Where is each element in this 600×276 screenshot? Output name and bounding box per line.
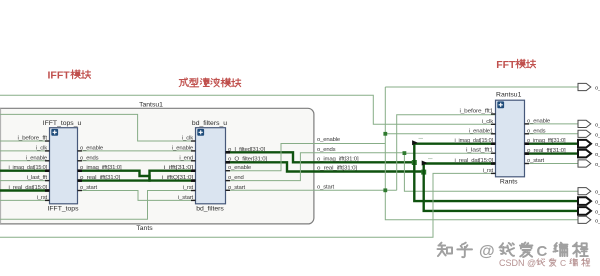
svg-text:o_start: o_start bbox=[317, 185, 334, 191]
svg-text:bd_filters: bd_filters bbox=[196, 206, 224, 213]
svg-text:i_before_fft1: i_before_fft1 bbox=[460, 109, 494, 115]
svg-text:o_imag_fft[31:0]: o_imag_fft[31:0] bbox=[527, 138, 566, 144]
svg-text:o_imag_ifft[31:0]: o_imag_ifft[31:0] bbox=[317, 157, 359, 163]
bus to Rantsu i_real_dat bbox=[424, 162, 496, 164]
net ext rst below box to Rantsu i_rst bbox=[0, 173, 496, 237]
junction dot1 bbox=[383, 132, 387, 136]
svg-text:Rantsu1: Rantsu1 bbox=[496, 92, 522, 99]
bus riser imag x=414.3 bbox=[414, 144, 580, 201]
bus o_imag_ifft outside bbox=[314, 161, 414, 163]
bus bd o_Q_filter step bbox=[226, 162, 315, 171]
svg-text:i_real_dat[15:0]: i_real_dat[15:0] bbox=[455, 158, 494, 164]
svg-text:o_enable: o_enable bbox=[317, 137, 341, 143]
svg-text:o_: o_ bbox=[595, 162, 600, 168]
hierarchical container Tants (instance Tantsu1) bbox=[0, 108, 314, 224]
svg-text:o_ends: o_ends bbox=[80, 155, 99, 161]
bus Rantsu o_real_fft to pentagon bbox=[525, 152, 581, 154]
svg-text:o_real_ifft[31:0]: o_real_ifft[31:0] bbox=[317, 166, 358, 172]
bus IFFT i_real_dat[15:0] bbox=[0, 189, 50, 191]
IFFT_tops_u pin stubs left bbox=[45, 141, 50, 200]
net Rantsu o_start to pentagon bbox=[525, 163, 581, 165]
svg-text:IFFT_tops: IFFT_tops bbox=[48, 206, 80, 213]
block IFFT_tops_u bbox=[43, 120, 82, 213]
svg-text:i_enable1: i_enable1 bbox=[469, 128, 493, 134]
svg-text:o_real_fft[31:0]: o_real_fft[31:0] bbox=[527, 148, 566, 154]
svg-text:i_imag_dat[15:0]: i_imag_dat[15:0] bbox=[9, 165, 48, 171]
bus IFFT i_imag_dat[15:0] bbox=[0, 169, 50, 171]
svg-text:i_clk: i_clk bbox=[482, 119, 493, 125]
wire IFFT i_before_fft bbox=[0, 140, 50, 142]
svg-text:o_start: o_start bbox=[527, 158, 544, 164]
block Rantsu1 bbox=[496, 92, 525, 186]
net i_enable1 from dot bbox=[385, 133, 495, 135]
svg-text:o_: o_ bbox=[595, 152, 600, 158]
bus Rantsu o_imag_fft to pentagon bbox=[525, 142, 581, 144]
svg-text:o_start: o_start bbox=[80, 185, 97, 191]
net o_enable IFFT to bd i_enable bbox=[78, 150, 196, 152]
svg-text:o_end: o_end bbox=[228, 175, 244, 181]
svg-text:FFT: FFT bbox=[496, 59, 516, 71]
svg-text:i_ifftQ[31:0]: i_ifftQ[31:0] bbox=[162, 175, 194, 181]
block bd_filters_u bbox=[192, 120, 227, 213]
junction dot3 bbox=[403, 151, 407, 155]
svg-text:i_rst: i_rst bbox=[37, 195, 48, 201]
svg-text:i_last_fft: i_last_fft bbox=[27, 175, 48, 181]
svg-text:o_enable: o_enable bbox=[527, 118, 551, 124]
svg-text:o_: o_ bbox=[595, 142, 600, 148]
wire IFFT i_last_fft bbox=[0, 180, 50, 182]
bus bd o_I_filter step bbox=[226, 152, 315, 162]
net top to single output pentagon bbox=[385, 86, 580, 88]
svg-text:IFFT_tops_u: IFFT_tops_u bbox=[43, 120, 82, 127]
connector triangle i_imag_dat bbox=[412, 140, 418, 145]
svg-text:o_ends: o_ends bbox=[317, 147, 336, 153]
wire ext clk top (net clk to FFT stage) bbox=[0, 95, 496, 124]
bd_filters_u pin stubs right bbox=[226, 171, 231, 191]
net bd o_enable up to Tants pin o_enable bbox=[226, 144, 315, 171]
svg-text:i_rst: i_rst bbox=[183, 185, 194, 191]
bus o_real_ifft crossover to bd i_ifft bbox=[78, 171, 196, 181]
watermark zhihu bbox=[437, 242, 587, 257]
svg-text:Tantsu1: Tantsu1 bbox=[139, 102, 163, 109]
svg-text:CSDN @: CSDN @ bbox=[499, 258, 536, 268]
svg-text:o_start: o_start bbox=[228, 185, 245, 191]
svg-text:C: C bbox=[537, 243, 548, 260]
svg-text:i_start: i_start bbox=[178, 195, 194, 201]
svg-text:i_ifft[31:0]: i_ifft[31:0] bbox=[164, 165, 194, 171]
svg-text:o_: o_ bbox=[595, 132, 600, 138]
bus riser real x=423.7 bbox=[424, 164, 580, 211]
net o_ends IFFT to bd i_end bbox=[78, 160, 196, 162]
svg-text:o_ends: o_ends bbox=[527, 128, 546, 134]
net bd o_end up to Tants pin o_ends bbox=[226, 153, 315, 181]
svg-text:i_imag_dat[15:0]: i_imag_dat[15:0] bbox=[455, 138, 494, 144]
svg-text:o_I_filted[31:0]: o_I_filted[31:0] bbox=[228, 147, 266, 153]
svg-text:o_: o_ bbox=[595, 209, 600, 215]
net o_enable pin wire outside bbox=[314, 143, 385, 145]
svg-text:i_end: i_end bbox=[179, 155, 193, 161]
net vertical o_start riser x=385.3 bbox=[385, 87, 580, 220]
bd_filters_u pin stubs left bbox=[191, 141, 196, 200]
svg-text:@: @ bbox=[479, 243, 495, 260]
svg-text:i_rst: i_rst bbox=[483, 168, 494, 174]
Rantsu1 pin stubs left bbox=[491, 114, 496, 173]
wire IFFT i_enable bbox=[0, 160, 50, 162]
bus junction dot imag bbox=[412, 160, 417, 165]
svg-text:i_enable: i_enable bbox=[26, 155, 48, 161]
junction dot2 bbox=[383, 188, 387, 192]
svg-text:bd_filters_u: bd_filters_u bbox=[192, 120, 227, 127]
svg-text:C: C bbox=[560, 258, 566, 268]
bus o_real_ifft outside bbox=[314, 170, 424, 172]
svg-text:o_: o_ bbox=[595, 86, 600, 92]
svg-text:o_: o_ bbox=[595, 218, 600, 224]
net Rantsu o_enable to pentagon bbox=[525, 123, 581, 125]
wire IFFT i_rst bbox=[0, 199, 50, 201]
svg-text:o_Q_filter[31:0]: o_Q_filter[31:0] bbox=[228, 157, 268, 163]
svg-text:o_enable: o_enable bbox=[80, 145, 104, 151]
net rst to bd i_rst from left bbox=[0, 191, 196, 220]
output port pentagons group1 bbox=[578, 120, 591, 127]
net o_ends drop to pentagon1 bbox=[404, 153, 580, 192]
svg-text:i_before_fft: i_before_fft bbox=[18, 136, 48, 142]
bus to Rantsu i_imag_dat bbox=[414, 142, 495, 144]
svg-text:i_clk: i_clk bbox=[182, 136, 193, 142]
IFFT_tops_u pin stubs right bbox=[78, 151, 83, 191]
svg-text:i_real_dat[15:0]: i_real_dat[15:0] bbox=[9, 185, 48, 191]
svg-text:Rants: Rants bbox=[500, 178, 518, 185]
wire clk inside Tants to bd_filters i_clk bbox=[0, 114, 196, 141]
svg-text:o_: o_ bbox=[595, 200, 600, 206]
net o_ends pin wire to i_last_fft1 bbox=[314, 152, 404, 154]
net bd o_start to Tants pin o_start bbox=[226, 189, 397, 191]
svg-text:Tants: Tants bbox=[136, 225, 153, 232]
wire IFFT i_clk bbox=[0, 150, 50, 152]
bus o_imag_ifft crossover to bd i_ifftQ bbox=[78, 171, 196, 181]
svg-text:i_clk: i_clk bbox=[36, 145, 47, 151]
svg-text:IFFT: IFFT bbox=[48, 70, 71, 82]
connector triangle i_real_dat bbox=[422, 161, 428, 166]
bus junction dot real bbox=[421, 170, 426, 175]
svg-text:o_real_ifft[31:0]: o_real_ifft[31:0] bbox=[80, 175, 121, 181]
red annotation shaping filter module bbox=[179, 78, 241, 87]
Rantsu1 pin stubs right bbox=[525, 124, 530, 164]
output port pentagons group2 bbox=[578, 188, 591, 195]
net Rantsu o_ends to pentagon bbox=[525, 133, 581, 135]
net o_start IFFT jog to bd i_start bbox=[78, 191, 196, 201]
output port pentagon top bbox=[578, 83, 591, 90]
svg-text:o_enable: o_enable bbox=[228, 165, 252, 171]
svg-text:i_last_fft1: i_last_fft1 bbox=[466, 148, 493, 154]
svg-text:i_enable: i_enable bbox=[172, 145, 194, 151]
svg-text:o_: o_ bbox=[595, 190, 600, 196]
svg-text:o_imag_ifft[31:0]: o_imag_ifft[31:0] bbox=[80, 165, 122, 171]
net i_before_fft1 riser x=396.7 bbox=[397, 115, 496, 191]
svg-text:o_: o_ bbox=[595, 122, 600, 128]
